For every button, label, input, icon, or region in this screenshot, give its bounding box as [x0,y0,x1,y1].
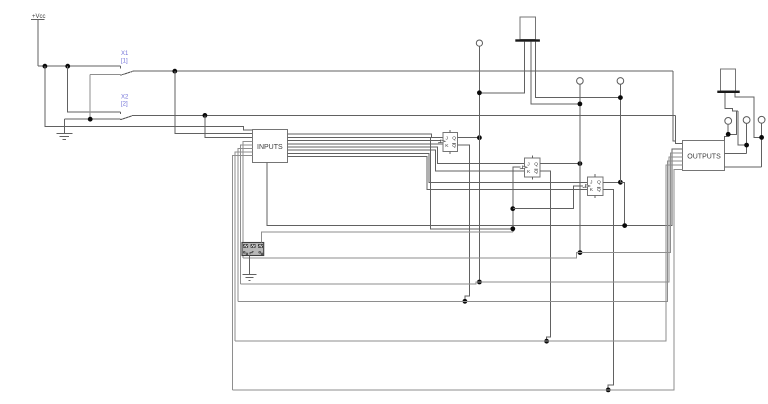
wire left feed 252 jog [243,253,580,258]
wire OUTPUTS pin 159 feed [240,157,682,284]
flip-flop U3 (JK) [583,174,603,198]
wire INPUTS right pin3 to FF1 clock [287,140,441,142]
switch X2 [64,112,134,120]
svg-text:Q: Q [534,169,538,175]
wire FF3 Qbar feed to OUTPUTS [603,189,614,390]
svg-text:[2]: [2] [121,102,128,108]
node probe2 osc [578,102,583,107]
node probe1 end [477,280,482,285]
macro box OUTPUTS [683,140,725,170]
node Vcc-A [43,64,48,69]
ground GND2 [242,274,256,280]
svg-text:Q: Q [452,135,456,141]
node probeB [744,143,749,148]
wire Vcc stem [37,20,39,67]
wire INPUTS right pin2 descender [287,137,513,228]
probe LED1 [476,40,482,46]
svg-text:Q: Q [597,180,601,186]
svg-text:Q: Q [597,187,601,193]
svg-text:[1]: [1] [121,58,128,64]
+Vcc supply symbol [31,14,46,20]
wire X1 branch down to INPUTS pin2 [175,71,253,134]
switch X1 [90,66,134,75]
wire probeA into OUTPUTS top [724,137,728,141]
wire OSC1 pin1 to probe1 net [479,42,524,93]
flip-flop U2 (JK) [520,156,540,180]
wire probeB stem [746,123,748,153]
node X1 out [172,69,177,74]
svg-text:X1: X1 [121,51,129,57]
probe LED2 [577,78,584,85]
clock OSC1 [515,17,540,42]
wire OUTPUTS bottom loop [233,169,683,390]
svg-text:Q: Q [534,161,538,167]
svg-text:X2: X2 [121,94,129,100]
clock OSC2 [717,69,739,93]
wire X1 output rail [133,70,672,72]
wire INPUTS right pin4 to FF1 K [287,143,443,145]
wire INPUTS right pin8 to FF3 K [287,157,587,190]
wire OSC2 pin3 to probeC riser [735,93,762,137]
probe LED B [743,117,750,124]
node FF2 Q [578,161,583,166]
wire INPUTS right pin5 to FF2 J [287,147,524,164]
wire probeC into OUTPUTS right [725,166,762,168]
wire probe1 riser [478,46,480,282]
wire FF2 Qbar descender [540,171,550,341]
probe LED C [758,116,765,123]
macro box INPUTS [253,129,288,162]
switch X1 label [121,51,129,64]
wire X2 output rail [133,114,675,116]
wire probeB into OUTPUTS right [725,152,747,154]
wire X2 branch down to INPUTS pin3 [205,115,253,137]
svg-text:INPUTS: INPUTS [257,144,283,151]
node FF1 Q [477,135,482,140]
node probe1 osc [477,90,482,95]
wire FF2 Q to probe riser [540,163,580,165]
wire FF1 Q to probe riser [457,137,479,139]
flip-flop U1 (JK) [438,130,457,154]
wire OSC2 pin1 staircase [725,93,738,111]
node probe3 osc [618,95,623,100]
wire probeC stem [761,123,763,167]
wire DIP ground stem [249,256,251,275]
wire INPUTS right pin7 to FF3 J [287,153,587,182]
wire OUTPUTS pin 161.5 feed [238,161,683,301]
wire FF2 clock riser [513,167,521,232]
wire OUTPUTS left pin bundle 1 [580,153,683,252]
wire probeA stem [727,124,729,137]
node FF3 Q [618,180,623,185]
node bottom rail join [606,388,611,393]
component DIP switch S1 [242,243,264,256]
wire ground drop [63,119,65,133]
wire OSC2 twin riser b [738,111,747,145]
node X2 out [203,113,208,118]
wire OUTPUTS pin 164.5 feed [235,165,682,341]
wire Vcc branch to X2 top throw [68,66,121,112]
wire INPUTS left pin6 L [238,149,253,302]
node FF2 clk lower [510,226,515,231]
wire DIP clock feed [261,232,512,243]
wire Vcc branch down to INPUTS pin1 [45,66,253,130]
node FF1 Qbar join [463,299,468,304]
wire FF1 Qbar descender [457,145,469,301]
wire X1 bottom throw to ground net [89,74,91,119]
probe LED3 [617,78,624,85]
wire X2 rail drop into OUTPUTS top-left pin [675,115,682,143]
wire INPUTS left pin4 L [243,142,253,258]
wire INPUTS left pin5 L [240,145,252,284]
probe LED A [725,118,732,125]
ground GND1 [56,133,72,139]
wire OSC2 twin riser a [728,111,736,134]
wire probe3 riser lower jog [620,182,624,225]
node probe2 end [578,250,583,255]
node probeC [759,135,764,140]
svg-text:OUTPUTS: OUTPUTS [687,153,721,160]
node probeA [726,132,731,137]
wire probe3 riser [619,84,621,182]
wire INPUTS left pin8 L [233,156,253,390]
node Vcc-B [65,64,70,69]
node FF2 Qbar end [544,339,549,344]
wire INPUTS right pin6 to FF2 K [287,150,524,171]
wire X1 rail drop at right [673,71,676,141]
wire clk link to FF3 [513,186,583,209]
node ground net junction [88,117,93,122]
wire Vcc rail to X1 top throw [38,65,121,67]
svg-text:Q: Q [452,143,456,149]
wire INPUTS bottom pin long feed [267,149,683,225]
wire INPUTS left pin7 L [235,152,252,341]
wire OSC1 pin2 to probe riser 580 [531,42,580,104]
switch X2 label [121,94,129,107]
wire OSC1 pin3 to probe riser 620 [536,42,621,98]
wire FF3 Q to probe riser [603,181,621,183]
node probe3 end [622,223,627,228]
wire probe2 riser [579,84,581,253]
wire INPUTS right pin1 to FF1 J [287,134,443,138]
node FF2 clk to FF3 clk [510,206,515,211]
